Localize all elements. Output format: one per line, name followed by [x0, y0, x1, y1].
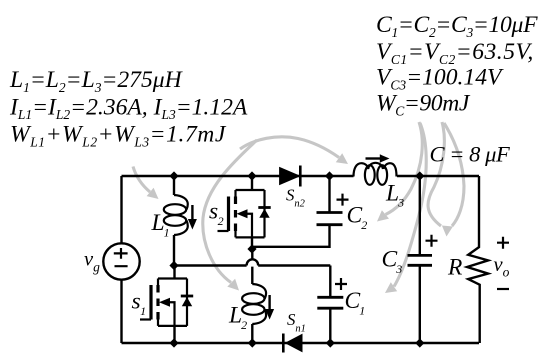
svg-text:VC1=VC2=63.5V,: VC1=VC2=63.5V, [376, 39, 534, 67]
svg-text:vg: vg [84, 249, 100, 275]
svg-text:Sn1: Sn1 [287, 310, 306, 334]
svg-text:Sn2: Sn2 [286, 185, 306, 209]
svg-text:C2: C2 [347, 203, 368, 232]
svg-text:VC3=100.14V: VC3=100.14V [376, 65, 504, 93]
svg-text:vo: vo [494, 254, 510, 280]
svg-text:WC=90mJ: WC=90mJ [376, 91, 471, 119]
svg-text:IL1=IL2=2.36A, IL3=1.12A: IL1=IL2=2.36A, IL3=1.12A [9, 94, 248, 122]
svg-text:C1: C1 [345, 288, 366, 317]
svg-text:s1: s1 [132, 289, 147, 318]
svg-text:L1=L2=L3=275μH: L1=L2=L3=275μH [9, 67, 184, 95]
svg-text:L3: L3 [385, 180, 404, 209]
svg-text:WL1+WL2+WL3=1.7mJ: WL1+WL2+WL3=1.7mJ [10, 122, 227, 150]
svg-text:C = 8 μF: C = 8 μF [430, 142, 510, 167]
svg-text:R: R [447, 254, 462, 280]
svg-text:L1: L1 [151, 210, 170, 239]
svg-text:C3: C3 [382, 247, 403, 276]
svg-text:C1=C2=C3=10μF: C1=C2=C3=10μF [376, 12, 538, 40]
svg-text:s2: s2 [209, 199, 224, 228]
